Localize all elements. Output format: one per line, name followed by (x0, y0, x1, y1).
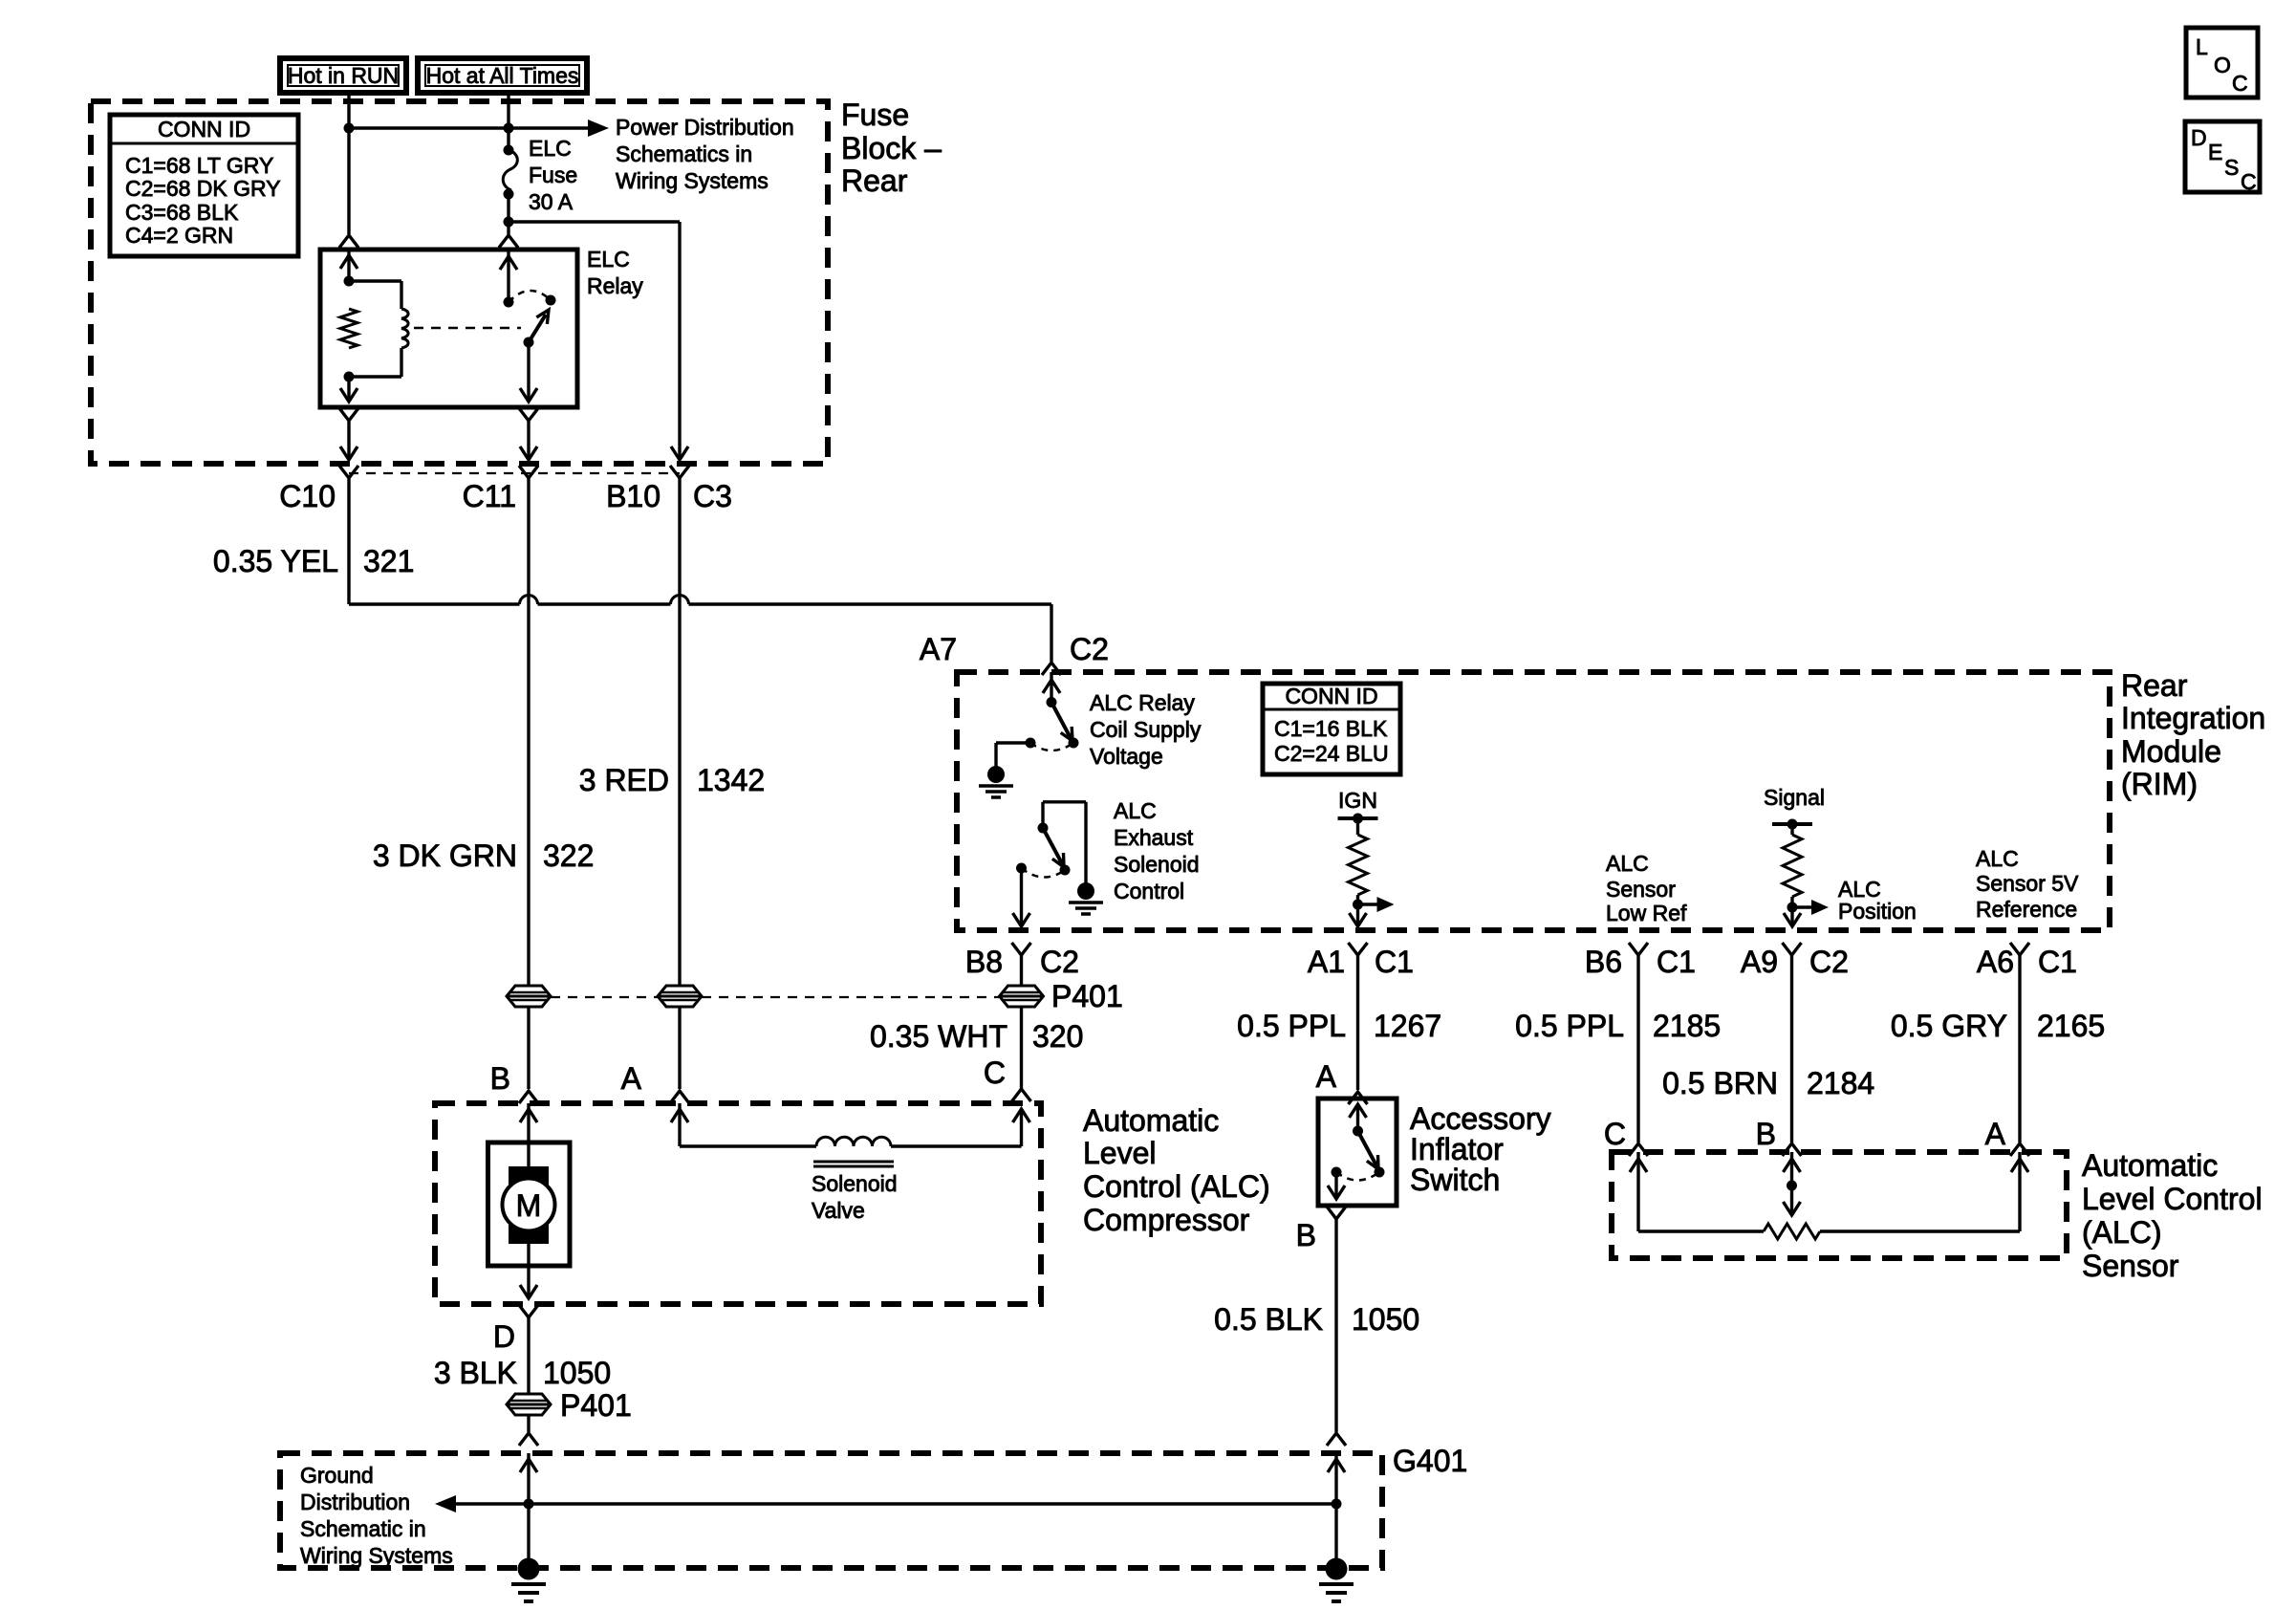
svg-text:C2=68 DK GRY: C2=68 DK GRY (125, 176, 281, 201)
svg-text:Schematic in: Schematic in (300, 1516, 426, 1541)
svg-text:E: E (2208, 140, 2222, 164)
svg-text:1050: 1050 (1352, 1302, 1419, 1337)
svg-text:0.5 PPL: 0.5 PPL (1515, 1009, 1624, 1043)
svg-text:Rear: Rear (841, 163, 908, 198)
svg-text:Control (ALC): Control (ALC) (1083, 1169, 1270, 1204)
svg-text:B6: B6 (1585, 945, 1622, 979)
svg-text:C2=24 BLU: C2=24 BLU (1274, 741, 1389, 766)
svg-text:1342: 1342 (697, 763, 765, 797)
svg-text:Automatic: Automatic (1083, 1103, 1219, 1138)
svg-text:Schematics in: Schematics in (616, 141, 752, 166)
svg-text:Sensor 5V: Sensor 5V (1976, 871, 2079, 896)
svg-text:C1=68 LT GRY: C1=68 LT GRY (125, 153, 273, 178)
svg-text:L: L (2196, 34, 2208, 59)
svg-text:Solenoid: Solenoid (812, 1171, 898, 1196)
svg-text:IGN: IGN (1338, 788, 1377, 813)
svg-text:0.5 BLK: 0.5 BLK (1214, 1302, 1323, 1337)
svg-text:Wiring Systems: Wiring Systems (616, 168, 769, 193)
svg-text:C10: C10 (279, 479, 336, 513)
svg-text:Automatic: Automatic (2082, 1148, 2218, 1183)
svg-text:Fuse: Fuse (841, 98, 909, 132)
svg-text:S: S (2224, 155, 2239, 180)
svg-text:3 DK GRN: 3 DK GRN (373, 838, 517, 873)
svg-text:Position: Position (1838, 899, 1917, 924)
svg-text:Accessory: Accessory (1410, 1101, 1551, 1136)
svg-text:C: C (1604, 1117, 1626, 1151)
svg-text:0.35 WHT: 0.35 WHT (870, 1019, 1007, 1054)
svg-text:320: 320 (1032, 1019, 1083, 1054)
svg-text:A1: A1 (1308, 945, 1345, 979)
svg-text:30 A: 30 A (529, 189, 574, 214)
svg-text:Rear: Rear (2121, 668, 2188, 703)
svg-text:0.5 GRY: 0.5 GRY (1891, 1009, 2007, 1043)
svg-text:2185: 2185 (1653, 1009, 1721, 1043)
svg-text:Hot in RUN: Hot in RUN (288, 63, 399, 88)
svg-text:G401: G401 (1393, 1444, 1467, 1478)
svg-text:C: C (2232, 71, 2248, 96)
svg-text:Reference: Reference (1976, 897, 2077, 922)
svg-text:B10: B10 (606, 479, 661, 513)
svg-text:ELC: ELC (587, 247, 630, 272)
svg-text:2165: 2165 (2037, 1009, 2105, 1043)
svg-text:C2: C2 (1809, 945, 1849, 979)
svg-text:Low Ref: Low Ref (1606, 901, 1687, 925)
svg-text:Fuse: Fuse (529, 163, 577, 187)
svg-text:Voltage: Voltage (1090, 744, 1163, 769)
svg-text:B: B (1756, 1117, 1776, 1151)
svg-text:Sensor: Sensor (2082, 1249, 2179, 1283)
svg-text:Sensor: Sensor (1606, 877, 1676, 902)
svg-text:321: 321 (363, 544, 414, 578)
svg-text:Module: Module (2121, 734, 2221, 769)
svg-text:Ground: Ground (300, 1463, 374, 1488)
svg-text:ALC: ALC (1606, 851, 1649, 876)
svg-text:1050: 1050 (543, 1356, 611, 1390)
svg-text:(ALC): (ALC) (2082, 1215, 2162, 1250)
svg-text:C1: C1 (2038, 945, 2077, 979)
svg-text:Level Control: Level Control (2082, 1182, 2263, 1216)
svg-text:Distribution: Distribution (300, 1490, 410, 1514)
svg-text:2184: 2184 (1807, 1066, 1874, 1100)
svg-text:C: C (2241, 169, 2257, 194)
svg-text:0.5 BRN: 0.5 BRN (1662, 1066, 1778, 1100)
svg-text:A9: A9 (1741, 945, 1778, 979)
svg-text:P401: P401 (560, 1388, 632, 1423)
svg-text:M: M (516, 1188, 542, 1223)
svg-text:0.5 PPL: 0.5 PPL (1237, 1009, 1346, 1043)
svg-text:C1: C1 (1375, 945, 1414, 979)
svg-text:322: 322 (543, 838, 594, 873)
svg-text:Wiring Systems: Wiring Systems (300, 1543, 453, 1568)
svg-text:Integration: Integration (2121, 701, 2265, 735)
svg-text:C2: C2 (1070, 632, 1109, 666)
svg-text:3 RED: 3 RED (579, 763, 669, 797)
svg-text:C1=16 BLK: C1=16 BLK (1274, 716, 1388, 741)
svg-text:Exhaust: Exhaust (1114, 825, 1194, 850)
svg-text:1267: 1267 (1374, 1009, 1441, 1043)
svg-text:A6: A6 (1977, 945, 2014, 979)
svg-text:C2: C2 (1040, 945, 1079, 979)
svg-text:Control: Control (1114, 879, 1184, 903)
svg-text:A: A (1316, 1059, 1337, 1094)
svg-text:A: A (1985, 1117, 2006, 1151)
svg-text:B8: B8 (965, 945, 1003, 979)
svg-text:Inflator: Inflator (1410, 1132, 1504, 1166)
svg-text:Compressor: Compressor (1083, 1203, 1250, 1237)
svg-text:D: D (2191, 125, 2207, 150)
svg-text:ALC: ALC (1976, 846, 2019, 871)
svg-text:C3: C3 (693, 479, 732, 513)
svg-text:Valve: Valve (812, 1198, 865, 1223)
svg-text:Level: Level (1083, 1136, 1157, 1170)
svg-text:P401: P401 (1051, 979, 1123, 1013)
svg-text:Hot at All Times: Hot at All Times (426, 63, 579, 88)
svg-text:CONN ID: CONN ID (1285, 684, 1377, 708)
svg-text:A: A (621, 1061, 642, 1096)
svg-text:Block –: Block – (841, 131, 942, 165)
svg-text:C11: C11 (463, 479, 516, 513)
svg-text:O: O (2214, 53, 2231, 77)
svg-text:Coil Supply: Coil Supply (1090, 717, 1202, 742)
svg-text:Signal: Signal (1764, 785, 1825, 810)
svg-text:3 BLK: 3 BLK (434, 1356, 517, 1390)
svg-text:B: B (1296, 1218, 1316, 1252)
svg-text:C: C (984, 1055, 1006, 1090)
svg-text:Solenoid: Solenoid (1114, 852, 1200, 877)
svg-text:ELC: ELC (529, 136, 572, 161)
svg-text:Switch: Switch (1410, 1163, 1500, 1197)
svg-text:(RIM): (RIM) (2121, 767, 2198, 801)
svg-text:C1: C1 (1657, 945, 1696, 979)
svg-text:CONN ID: CONN ID (158, 117, 250, 141)
svg-text:ALC Relay: ALC Relay (1090, 690, 1195, 715)
svg-text:Power Distribution: Power Distribution (616, 115, 794, 140)
svg-text:ALC: ALC (1114, 798, 1157, 823)
svg-text:A7: A7 (920, 632, 957, 666)
svg-text:Relay: Relay (587, 273, 643, 298)
svg-text:C3=68 BLK: C3=68 BLK (125, 200, 239, 225)
svg-text:B: B (490, 1061, 510, 1096)
svg-text:C4=2 GRN: C4=2 GRN (125, 223, 233, 248)
svg-text:0.35 YEL: 0.35 YEL (213, 544, 338, 578)
svg-text:D: D (493, 1319, 515, 1354)
